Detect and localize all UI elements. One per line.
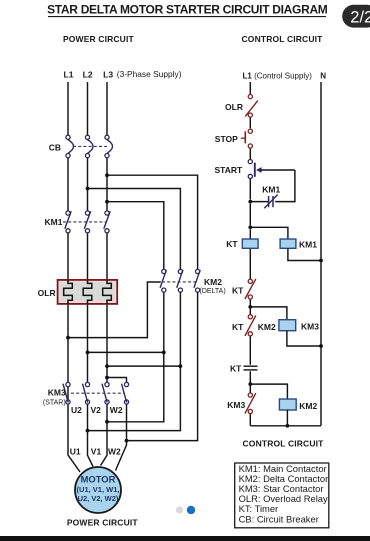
node: tap L3 to KM2 pole1 (y=201.7)	[105, 200, 164, 269]
svg-text:(3-Phase Supply): (3-Phase Supply)	[117, 69, 182, 79]
svg-text:L1 (Control Supply): L1 (Control Supply)	[243, 71, 313, 80]
coil KM3	[279, 320, 319, 332]
node labels L1 L2 L3 (3-Phase Supply)	[64, 69, 182, 79]
svg-text:KM3: KM3	[48, 388, 66, 398]
svg-text:KM3: KM3	[227, 400, 245, 410]
wire KM2 coil to bottom rail	[286, 410, 288, 426]
node junction U line y=337.6	[66, 336, 70, 340]
bottom bar	[0, 536, 370, 541]
wire START holding branch (right loop)	[275, 170, 295, 202]
wire KM2 pole2 output vertical	[88, 292, 181, 430]
svg-text:KM3: KM3	[301, 322, 319, 332]
motor lead labels U1 V1 W2	[70, 447, 121, 457]
svg-text:W2: W2	[108, 447, 121, 457]
coil KM1	[280, 239, 317, 250]
wire W line tap to KM3 pole4 top (y=377.5)	[107, 378, 127, 383]
wire L1 vertical (phase U)	[68, 82, 80, 472]
legend box	[235, 463, 329, 528]
overload relay OLR	[38, 280, 118, 304]
contactor KM1 (main)	[45, 211, 111, 233]
svg-text:STAR DELTA MOTOR STARTER CIRCU: STAR DELTA MOTOR STARTER CIRCUIT DIAGRAM	[47, 3, 328, 17]
node junction bottom rail	[286, 424, 290, 428]
svg-text:U1: U1	[70, 447, 81, 457]
svg-text:STOP: STOP	[215, 134, 238, 144]
node junction W y=377.5	[105, 376, 109, 380]
title	[47, 3, 328, 17]
contactor KM3 (star)	[43, 382, 129, 406]
page indicator dots	[176, 506, 183, 513]
wire L2 vertical (phase V)	[88, 82, 94, 467]
node: tap L3 to KM2 pole3 (y=175)	[105, 173, 198, 269]
node junction W y=366.1	[105, 364, 109, 368]
svg-text:KM1: KM1	[262, 185, 280, 195]
wire L1 through KM3 gap	[67, 403, 69, 405]
node junction main line y=227.3	[248, 225, 252, 229]
wire control phase vertical (top)	[249, 82, 251, 426]
wire 4th line vertical to motor	[116, 404, 127, 470]
svg-text:OLR: OLR	[38, 288, 56, 298]
circuit breaker CB	[49, 135, 113, 158]
coil KM2	[279, 399, 317, 411]
svg-text:KM1: KM1	[45, 217, 63, 227]
contact KM3 NC (interlock)	[227, 393, 256, 414]
wire neutral N vertical	[320, 82, 322, 426]
svg-text:(U1, V1, W1,: (U1, V1, W1,	[77, 485, 120, 494]
wire KM2 pole3 output vertical	[127, 292, 198, 440]
svg-text:OLR: OLR	[225, 102, 243, 112]
svg-text:KM2: KM2	[258, 322, 276, 332]
wire W line to pole2 output (y=366.1)	[107, 365, 180, 367]
page badge 2/2	[342, 5, 370, 28]
node: tap L2 to KM2 pole2 (y=188.5)	[86, 187, 181, 270]
coil KT (timer)	[226, 239, 258, 249]
node junction main y=384.1	[248, 382, 252, 386]
svg-text:CB: Circuit Breaker: CB: Circuit Breaker	[239, 513, 319, 524]
wire branch to KM3 coil	[250, 307, 287, 320]
wire KM3 coil return to N	[287, 331, 321, 346]
wire V line to pole1 output (y=352.4)	[88, 351, 164, 353]
pushbutton STOP NC	[215, 129, 253, 148]
wire L2 gap segments at KM1/KM3 handled above; KM3 pole gaps for L1	[67, 403, 69, 405]
svg-text:2/2: 2/2	[350, 9, 370, 27]
contact KT NC #2 with KM2 label	[232, 315, 276, 336]
svg-text:N: N	[320, 71, 326, 80]
svg-text:MOTOR: MOTOR	[81, 474, 116, 485]
svg-text:CONTROL CIRCUIT: CONTROL CIRCUIT	[242, 34, 324, 44]
node junction on N y=260.5	[319, 259, 323, 263]
node junction 4th line y=440.6	[125, 439, 129, 443]
node junction W line y=421.8	[105, 420, 109, 424]
svg-text:L3: L3	[103, 70, 113, 80]
wire L3 vertical (phase W)	[101, 82, 108, 466]
svg-text:(STAR): (STAR)	[43, 400, 66, 407]
svg-text:L1: L1	[64, 70, 74, 80]
wire KM2 pole1 output vertical	[107, 292, 164, 422]
svg-text:L2: L2	[83, 70, 93, 80]
wire KM1 coil return to N	[288, 248, 321, 260]
svg-text:KM1: KM1	[299, 240, 317, 250]
node junction pole1-out y=352.4	[162, 351, 166, 355]
svg-text:KM2: KM2	[204, 277, 222, 287]
svg-text:POWER CIRCUIT: POWER CIRCUIT	[63, 34, 135, 44]
node junction V line y=430.6	[86, 429, 90, 433]
node junction main y=306.9	[248, 305, 252, 309]
contact OLR NC (control)	[225, 95, 258, 118]
contact KT NC #1	[232, 279, 256, 299]
node junction main line y=201.6	[248, 200, 252, 204]
svg-text:CB: CB	[49, 143, 61, 153]
wire KM2 pole1 blade tap to U line	[68, 282, 161, 338]
svg-text:V2: V2	[91, 405, 102, 415]
svg-text:START: START	[214, 165, 243, 175]
wire branch to KM2 coil	[250, 384, 287, 399]
svg-text:(DELTA): (DELTA)	[200, 288, 226, 295]
svg-text:U2: U2	[71, 405, 82, 415]
timer contact KT (on-delay bars)	[230, 363, 257, 373]
svg-text:KT: KT	[226, 239, 238, 249]
svg-text:V1: V1	[91, 447, 102, 457]
motor M	[75, 467, 121, 513]
svg-text:POWER CIRCUIT: POWER CIRCUIT	[67, 518, 139, 528]
pushbutton START NO	[214, 160, 294, 179]
node junction pole2-out y=366.1	[179, 364, 183, 368]
svg-text:CONTROL CIRCUIT: CONTROL CIRCUIT	[243, 439, 325, 449]
wire branch to KM1 coil	[250, 227, 288, 239]
svg-text:W2: W2	[110, 405, 123, 415]
contactor KM2 (delta)	[160, 269, 226, 294]
node junction on N y=346	[319, 344, 323, 348]
motor terminal labels U2 V2 W2	[71, 405, 123, 415]
node junction V y=352.4	[86, 351, 90, 355]
svg-text:KM2: KM2	[299, 401, 317, 411]
contact KM1 auxiliary NO (holding)	[250, 185, 280, 209]
svg-text:KT: KT	[230, 363, 242, 373]
svg-text:KT: KT	[232, 322, 244, 332]
svg-text:U2, V2, W2): U2, V2, W2)	[78, 494, 119, 503]
svg-text:KT: KT	[232, 286, 244, 296]
wire bottom rail to N	[250, 425, 321, 427]
